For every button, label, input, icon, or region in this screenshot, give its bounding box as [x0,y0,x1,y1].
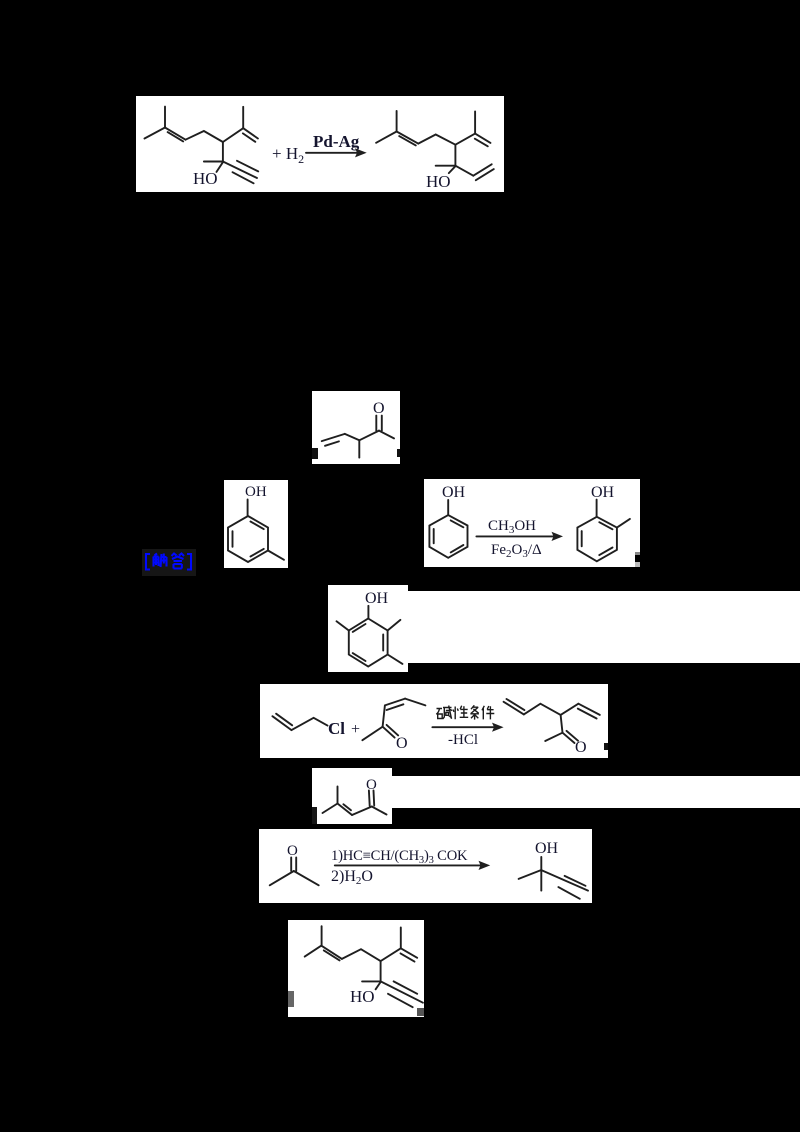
carbonyl to CH [359,431,379,441]
left bracket [146,554,150,570]
alkyne triple bond [542,870,588,890]
C=C double bond [322,946,342,959]
product C2-CH3 [545,733,562,741]
left molecule: O-C bond [217,162,223,172]
svg-text:+: + [351,721,360,738]
svg-text:-HCl: -HCl [448,732,478,748]
inner double bond top-right [451,520,464,527]
right molecule: methyl left of C(OH) [436,165,456,167]
right molecule: vinyl CH2 bond [455,166,473,176]
inner double bond top-right [599,522,612,529]
chain [342,949,381,961]
inner double bond right [382,635,384,651]
methyl upper-right [388,620,401,631]
pentenone C2=O [383,727,395,738]
svg-text:OH: OH [245,484,267,500]
O-ring bond [367,606,369,618]
svg-text:2)H2O: 2)H2O [331,868,373,887]
O-ring bond [596,500,598,517]
carbonyl to CH3 [372,807,387,815]
left molecule: chain [186,131,223,142]
svg-text:Pd-Ag: Pd-Ag [313,132,360,151]
isopropenyl =CH2 [401,948,417,958]
svg-text:Fe2O3/Δ: Fe2O3/Δ [491,542,542,560]
O-C bond [376,982,381,989]
image box E: 2,3,6-trimethylphenol [328,585,408,672]
small white speck [600,750,608,758]
right molecule: vinyl C=C double bond [473,164,491,175]
white redaction band 1 [408,591,800,663]
image box G: mesityl oxide [312,768,392,824]
scan artifact [604,743,608,750]
right molecule: isopropenyl =CH2 [475,134,490,143]
svg-text:O: O [396,735,408,752]
inner double bond left [433,529,435,543]
inner double bond left [232,531,234,547]
methyl stem [321,926,323,945]
left molecule: alkyne triple bond [223,162,257,179]
inner double bond left [581,531,583,546]
left molecule: CH down to C(OH) [222,142,224,162]
methyl bond [617,519,630,528]
right molecule: left methyl [376,132,397,143]
svg-text:HO: HO [193,169,218,188]
inner double bond bottom-left [353,653,366,661]
methyl down-left [323,804,338,814]
pentenone C3-C2 bond [383,705,385,726]
scan artifact left [312,448,318,459]
bond to isopropenyl [381,948,401,961]
blue annotation 【解答】 [142,549,196,576]
product bond to vinyl [561,704,579,715]
svg-text:OH: OH [365,590,389,607]
pentenone C2-CH3 [362,727,382,741]
image box D: phenol to o-cresol methylation [424,479,640,567]
svg-text:CH3OH: CH3OH [488,518,536,536]
svg-text:HO: HO [350,987,375,1006]
o-cresol benzene ring [577,517,617,562]
product C2=O [563,733,575,743]
alkyne triple bond [381,981,423,1002]
image box F: allylation of 3-penten-2-one [260,684,608,758]
carbonyl to CH3 right [294,871,319,885]
right molecule: CH down to C(OH) [454,145,456,166]
carbonyl to CH3 [379,431,394,439]
inner double bond top-left [353,624,366,632]
CH down to C(OH) [380,961,382,981]
inner double bond bottom-right [599,548,612,556]
left methyl [519,870,542,879]
image box H: acetone ethynylation [259,829,592,903]
svg-text:OH: OH [591,484,615,501]
left molecule: isopropenyl methyl stem [242,107,244,128]
methyl lower-right [388,655,403,664]
right molecule: bond to isopropenyl [455,134,475,145]
left molecule: methyl left of C(OH) [204,161,223,163]
scan artifact right [397,449,400,457]
white redaction band 2 [392,776,800,808]
benzene ring [228,516,268,562]
reaction arrow [476,535,559,537]
scan artifact left [288,991,294,1007]
methyl stem up [337,787,339,804]
svg-text:OH: OH [535,840,559,857]
right molecule: C=C double bond [397,132,419,144]
left molecule: methyl stem [164,107,166,128]
char tiao (condition) [470,705,479,719]
svg-text:OH: OH [442,484,466,501]
benzene ring [349,619,388,667]
vinyl C=C double bond [322,434,345,441]
svg-text:O: O [575,739,587,756]
methyl upper-left [337,621,349,630]
isopropenyl methyl stem [400,927,402,948]
svg-text:Cl: Cl [328,719,345,738]
image box C: m-cresol [224,480,288,568]
svg-text:1)HC≡CH/(CH3)3 COK: 1)HC≡CH/(CH3)3 COK [331,848,468,866]
reaction image box A: hydrogenation of dehydrolinalool [136,96,504,192]
left methyl [305,945,322,956]
left molecule: isopropenyl =CH2 [243,128,258,138]
right molecule: methyl stem [396,111,398,132]
CH to vinyl [345,434,360,440]
inner double bond bottom-right [251,549,264,557]
C=O double bond [368,791,371,807]
image box B: 3-methyl-4-penten-2-one [312,391,400,464]
svg-text:+ H2: + H2 [272,144,304,166]
product vinyl C=C [578,704,599,715]
glyph jie [154,554,167,568]
char xing (nature) [453,706,468,720]
char jian (item) [482,706,494,720]
svg-text:O: O [366,777,377,793]
phenol benzene ring [429,515,467,558]
reaction arrow [306,152,363,154]
right molecule: chain [418,135,455,145]
left molecule: left methyl [145,128,166,139]
O-ring bond [247,500,249,516]
scan artifact [312,807,317,824]
CH3 stem down [358,440,360,457]
scan artifact [635,552,640,555]
carbonyl to =CH [352,807,372,816]
char jian (alkali) [436,706,452,720]
C=C double bond [338,804,353,816]
allyl chloride C=C [272,716,291,730]
svg-text:HO: HO [426,172,451,191]
left molecule: C=C double bond [165,128,186,140]
svg-text:O: O [373,400,385,417]
inner double bond bottom-right [451,545,464,552]
inner double bond top-right [251,522,264,530]
product chain [524,704,561,715]
allyl chloride chain [292,718,328,730]
reaction arrow [335,864,486,866]
O-ring bond [447,500,449,515]
right bracket [187,554,191,570]
scan artifact right [417,1008,424,1016]
right molecule: O-C bond [449,166,456,173]
O-C bond [540,857,542,870]
right molecule: isopropenyl methyl stem [474,111,476,133]
pentenone cis C=C [385,699,405,706]
condition text (basic conditions) [436,705,494,719]
left molecule: bond to isopropenyl [223,128,243,142]
methyl left of C(OH) [362,980,381,982]
down methyl [540,870,542,891]
pentenone methyl top [405,699,425,706]
product CH-C2 bond [561,715,563,733]
C=O double bond [290,858,292,872]
product terminal C=C [504,702,524,715]
carbonyl to CH3 left [270,871,294,885]
C=O double bond [375,416,377,431]
reaction arrow [432,726,500,728]
image box I: dehydrolinalool analog [288,920,424,1017]
glyph da [172,554,185,569]
methyl bond [268,551,284,560]
